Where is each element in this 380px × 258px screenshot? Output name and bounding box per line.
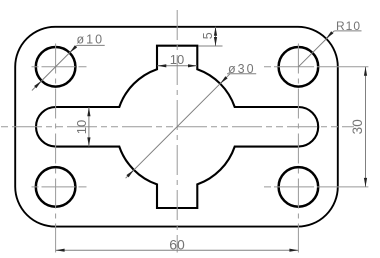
dia10 leader line [32, 45, 77, 90]
dim 60 arrow left [56, 249, 65, 252]
R10 arrow [326, 31, 334, 39]
dim 10 slot height line [88, 107, 90, 146]
svg-text:ø30: ø30 [228, 62, 256, 76]
dim 5 extension line [199, 45, 223, 47]
left column centerline / extension [55, 44, 57, 253]
dim 5 line [215, 27, 217, 46]
hole top-left D10 [36, 47, 76, 87]
main vertical centerline [176, 10, 178, 253]
svg-text:5: 5 [201, 32, 215, 39]
central contour: circle D30 + slot + keyways [36, 46, 318, 208]
R10 leader line [298, 31, 334, 67]
dim 60 arrow right [289, 249, 298, 252]
top-left hole horizontal centerline [32, 66, 87, 68]
bottom-left hole horizontal centerline [32, 186, 87, 188]
dia10 underline [77, 44, 105, 46]
dim 30 arrow top [364, 67, 367, 76]
svg-text:R10: R10 [336, 19, 361, 33]
dim 30 arrow bottom [364, 178, 367, 187]
dia30 arrow upper-right [220, 76, 228, 84]
dia10 arrow lower-left [34, 81, 42, 89]
main horizontal centerline [1, 126, 354, 128]
dim 10 slot arrow bottom [87, 137, 90, 146]
svg-text:30: 30 [350, 119, 365, 134]
dia10 arrow upper-right [70, 45, 78, 53]
svg-text:ø10: ø10 [77, 32, 105, 46]
dim 10 keyway width line [157, 65, 197, 67]
dia30 underline [227, 73, 256, 75]
svg-text:10: 10 [74, 120, 89, 134]
dim 10 keyway arrow left [157, 64, 166, 67]
hole bottom-left D10 [36, 167, 76, 207]
right column centerline / extension [297, 44, 299, 253]
dim 10 keyway arrow right [188, 64, 197, 67]
top-right hole centerline + dim-30 extension [264, 66, 368, 68]
R10 underline [334, 30, 361, 32]
dim 5 arrow top [214, 27, 217, 36]
dim 30 line [365, 67, 367, 187]
bottom-right hole centerline + dim-30 extension [264, 186, 368, 188]
dim 5 arrow bottom [214, 37, 217, 46]
svg-text:60: 60 [169, 237, 185, 253]
svg-text:10: 10 [170, 52, 184, 67]
dia30 arrow lower-left [126, 170, 133, 178]
plate outline (rounded rectangle R10) [15, 27, 338, 227]
hole bottom-right D10 [279, 167, 319, 207]
dim 10 slot arrow top [87, 107, 90, 116]
hole top-right D10 [279, 47, 319, 87]
dia30 leader line [126, 74, 230, 178]
dim 60 line [56, 249, 299, 251]
